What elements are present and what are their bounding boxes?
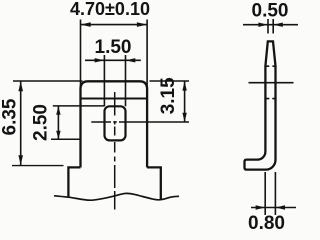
dimension 1.50 line	[85, 59, 141, 61]
front view slot hole	[105, 106, 126, 140]
horizontal centerline through slot	[91, 121, 189, 123]
dimension 1.50 left extension line	[103, 55, 105, 106]
svg-text:1.50: 1.50	[95, 37, 132, 58]
front view left shoulder step	[68, 167, 80, 197]
dimension 1.50 left arrow	[95, 58, 105, 62]
dimension 0.80 right arrow	[275, 205, 285, 209]
dimension 0.80 left extension line	[264, 172, 266, 215]
dimension 6.35 line	[20, 81, 22, 165]
dimension 6.35 top extension line	[13, 80, 83, 82]
dimension 4.70 right extension line	[146, 20, 148, 90]
dimension 4.70 right arrow	[137, 22, 147, 27]
dimension 0.80 right extension line	[274, 172, 276, 215]
side view hidden dash row at y66	[266, 65, 275, 67]
dimension 6.35 bottom extension line	[12, 165, 64, 167]
side view datum line	[249, 82, 294, 84]
front view break (wavy) line	[54, 193, 179, 200]
dimension 0.50 left extension tick	[267, 19, 269, 34]
dimension 0.80 left arrow	[256, 205, 266, 209]
svg-text:3.15: 3.15	[158, 77, 179, 114]
dimension 2.50 bottom extension line	[51, 138, 81, 140]
dimension 1.50 right arrow	[126, 58, 136, 62]
dimension 4.70 left arrow	[81, 22, 91, 27]
front view tab outline	[81, 81, 148, 167]
dimension 4.70 line	[81, 24, 148, 26]
dimension 2.50 top extension line	[53, 105, 105, 107]
front view bend line across tab	[81, 98, 148, 100]
svg-text:0.80: 0.80	[248, 213, 285, 232]
vertical centerline	[114, 92, 116, 210]
dimension 3.15 bottom arrow	[182, 113, 186, 122]
svg-text:0.50: 0.50	[252, 1, 289, 22]
svg-text:4.70±0.10: 4.70±0.10	[70, 0, 150, 19]
dimension 3.15 top extension line	[150, 80, 190, 82]
svg-text:2.50: 2.50	[31, 104, 52, 141]
dimension 2.50 top arrow	[56, 106, 60, 115]
dimension 6.35 top arrow	[18, 81, 23, 91]
dimension 0.50 right extension tick	[272, 19, 274, 34]
dimension 4.70 left extension line	[80, 20, 82, 90]
side view hidden dash row at y98.5	[266, 98, 275, 100]
dimension 6.35 bottom arrow	[18, 155, 23, 165]
dimension 0.50 line	[243, 24, 298, 26]
front view right shoulder step	[147, 167, 161, 199]
dimension 3.15 line	[184, 81, 186, 122]
dimension 0.50 right arrow	[273, 23, 283, 27]
svg-text:6.35: 6.35	[0, 98, 21, 135]
dimension 3.15 top arrow	[182, 81, 186, 90]
dimension 1.50 right extension line	[125, 55, 127, 106]
dimension 0.80 line	[251, 207, 296, 209]
dimension 2.50 bottom arrow	[56, 131, 60, 140]
dimension 0.50 left arrow	[258, 23, 268, 27]
side view blade outline	[245, 41, 276, 169]
dimension 2.50 line	[57, 106, 59, 139]
